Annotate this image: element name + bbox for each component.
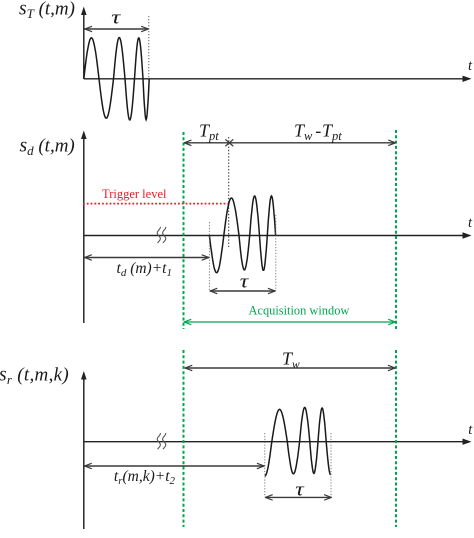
- svg-text:Trigger level: Trigger level: [102, 187, 167, 201]
- svg-text:sr (t,m,k): sr (t,m,k): [0, 364, 69, 387]
- tr(m,k)+t2 label: [114, 468, 176, 487]
- Tw-Tpt label: [294, 121, 342, 144]
- t label plot1: [468, 58, 473, 74]
- Tpt label: [199, 121, 219, 144]
- axis break squiggle plot2: [157, 227, 166, 243]
- Acquisition window label: [249, 304, 350, 318]
- tau label plot2: [240, 271, 250, 292]
- Trigger level label: [102, 187, 167, 201]
- acquisition window green arrow: [184, 319, 396, 324]
- axis break squiggle plot3: [157, 433, 166, 449]
- Tw arrow plot3: [185, 365, 395, 370]
- green dashed window start line plot3: [183, 350, 185, 527]
- tr(m,k)+t2 arrow: [85, 463, 265, 468]
- t label plot3: [468, 422, 473, 438]
- t label plot2: [468, 215, 473, 231]
- svg-text:Tw: Tw: [282, 349, 300, 372]
- label sd(t,m): [20, 136, 75, 159]
- label sT(t,m): [19, 0, 75, 21]
- green dashed acquisition-window start line plot2: [183, 132, 185, 329]
- svg-text:τ: τ: [295, 479, 305, 500]
- waveform plot2 (delayed burst): [209, 196, 275, 273]
- tau label plot1: [111, 7, 122, 28]
- vertical axis plot2: [81, 131, 87, 324]
- dotted marker end-of-burst plot2: [275, 215, 277, 291]
- svg-text:sT (t,m): sT (t,m): [19, 0, 75, 21]
- svg-text:t: t: [468, 215, 473, 231]
- svg-text:Tw: Tw: [294, 121, 313, 144]
- trigger level red dotted line: [83, 203, 231, 205]
- arrowheads crossing at trigger point (x mark): [226, 140, 233, 146]
- svg-text:t: t: [468, 58, 473, 74]
- svg-text:t: t: [468, 422, 473, 438]
- tau arrow plot2: [210, 288, 275, 293]
- Tw-Tpt arrow: [229, 140, 396, 145]
- tau label plot3: [295, 479, 305, 500]
- waveform plot3 (received burst): [265, 407, 331, 476]
- waveform plot1 (transmitted burst): [84, 38, 149, 120]
- tau arrow plot3: [265, 495, 331, 500]
- tau arrow plot1: [85, 26, 149, 31]
- svg-text:td (m)+t1: td (m)+t1: [117, 260, 172, 279]
- dotted marker start-of-burst plot3: [264, 433, 266, 497]
- dotted trigger-point vertical line: [228, 137, 230, 247]
- horizontal axis plot2 (time): [84, 232, 472, 238]
- svg-text:Tpt: Tpt: [322, 121, 342, 144]
- svg-text:τ: τ: [111, 7, 122, 28]
- vertical axis plot1: [81, 7, 87, 79]
- green dashed window end line plot3: [395, 350, 397, 527]
- td(m)+t1 arrow: [85, 255, 210, 260]
- dotted marker start-of-burst plot2: [208, 222, 210, 291]
- dotted marker end-of-burst plot3: [330, 433, 332, 497]
- green dashed acquisition-window end line plot2: [395, 130, 397, 329]
- label sr(t,m,k): [0, 364, 69, 387]
- vertical axis plot3: [81, 371, 87, 529]
- svg-text:tr(m,k)+t2: tr(m,k)+t2: [114, 468, 176, 487]
- dotted marker line end-of-burst plot1: [148, 16, 150, 79]
- Tw label plot3: [282, 349, 300, 372]
- Tpt arrow: [184, 140, 229, 145]
- horizontal axis plot3 (time): [84, 439, 472, 445]
- svg-text:Tpt: Tpt: [199, 121, 219, 144]
- svg-text:sd (t,m): sd (t,m): [20, 136, 75, 159]
- svg-text:-: -: [315, 121, 321, 141]
- svg-text:Acquisition window: Acquisition window: [249, 304, 350, 318]
- horizontal axis plot1 (time): [84, 76, 472, 82]
- svg-text:τ: τ: [240, 271, 250, 292]
- td(m)+t1 label: [117, 260, 172, 279]
